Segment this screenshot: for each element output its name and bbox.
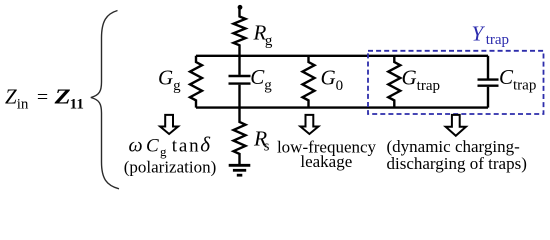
svg-text:(polarization): (polarization) [124, 158, 217, 177]
svg-text:δ: δ [200, 133, 211, 157]
svg-text:Gg: Gg [158, 66, 181, 95]
svg-text:ω: ω [129, 135, 143, 157]
svg-text:leakage: leakage [300, 152, 352, 171]
svg-text:Cg: Cg [250, 65, 272, 94]
svg-text:Rs: Rs [253, 127, 270, 155]
svg-text:Ctrap: Ctrap [499, 65, 536, 94]
svg-text:discharging of traps): discharging of traps) [387, 154, 527, 173]
svg-text:Rg: Rg [253, 21, 273, 50]
svg-text:C: C [146, 136, 159, 157]
svg-text:tan: tan [172, 136, 201, 157]
svg-text:G0: G0 [321, 66, 344, 95]
svg-text:Ytrap: Ytrap [472, 21, 510, 48]
svg-text:Gtrap: Gtrap [402, 66, 441, 95]
svg-text:Zin=Z11: Zin=Z11 [5, 85, 84, 113]
